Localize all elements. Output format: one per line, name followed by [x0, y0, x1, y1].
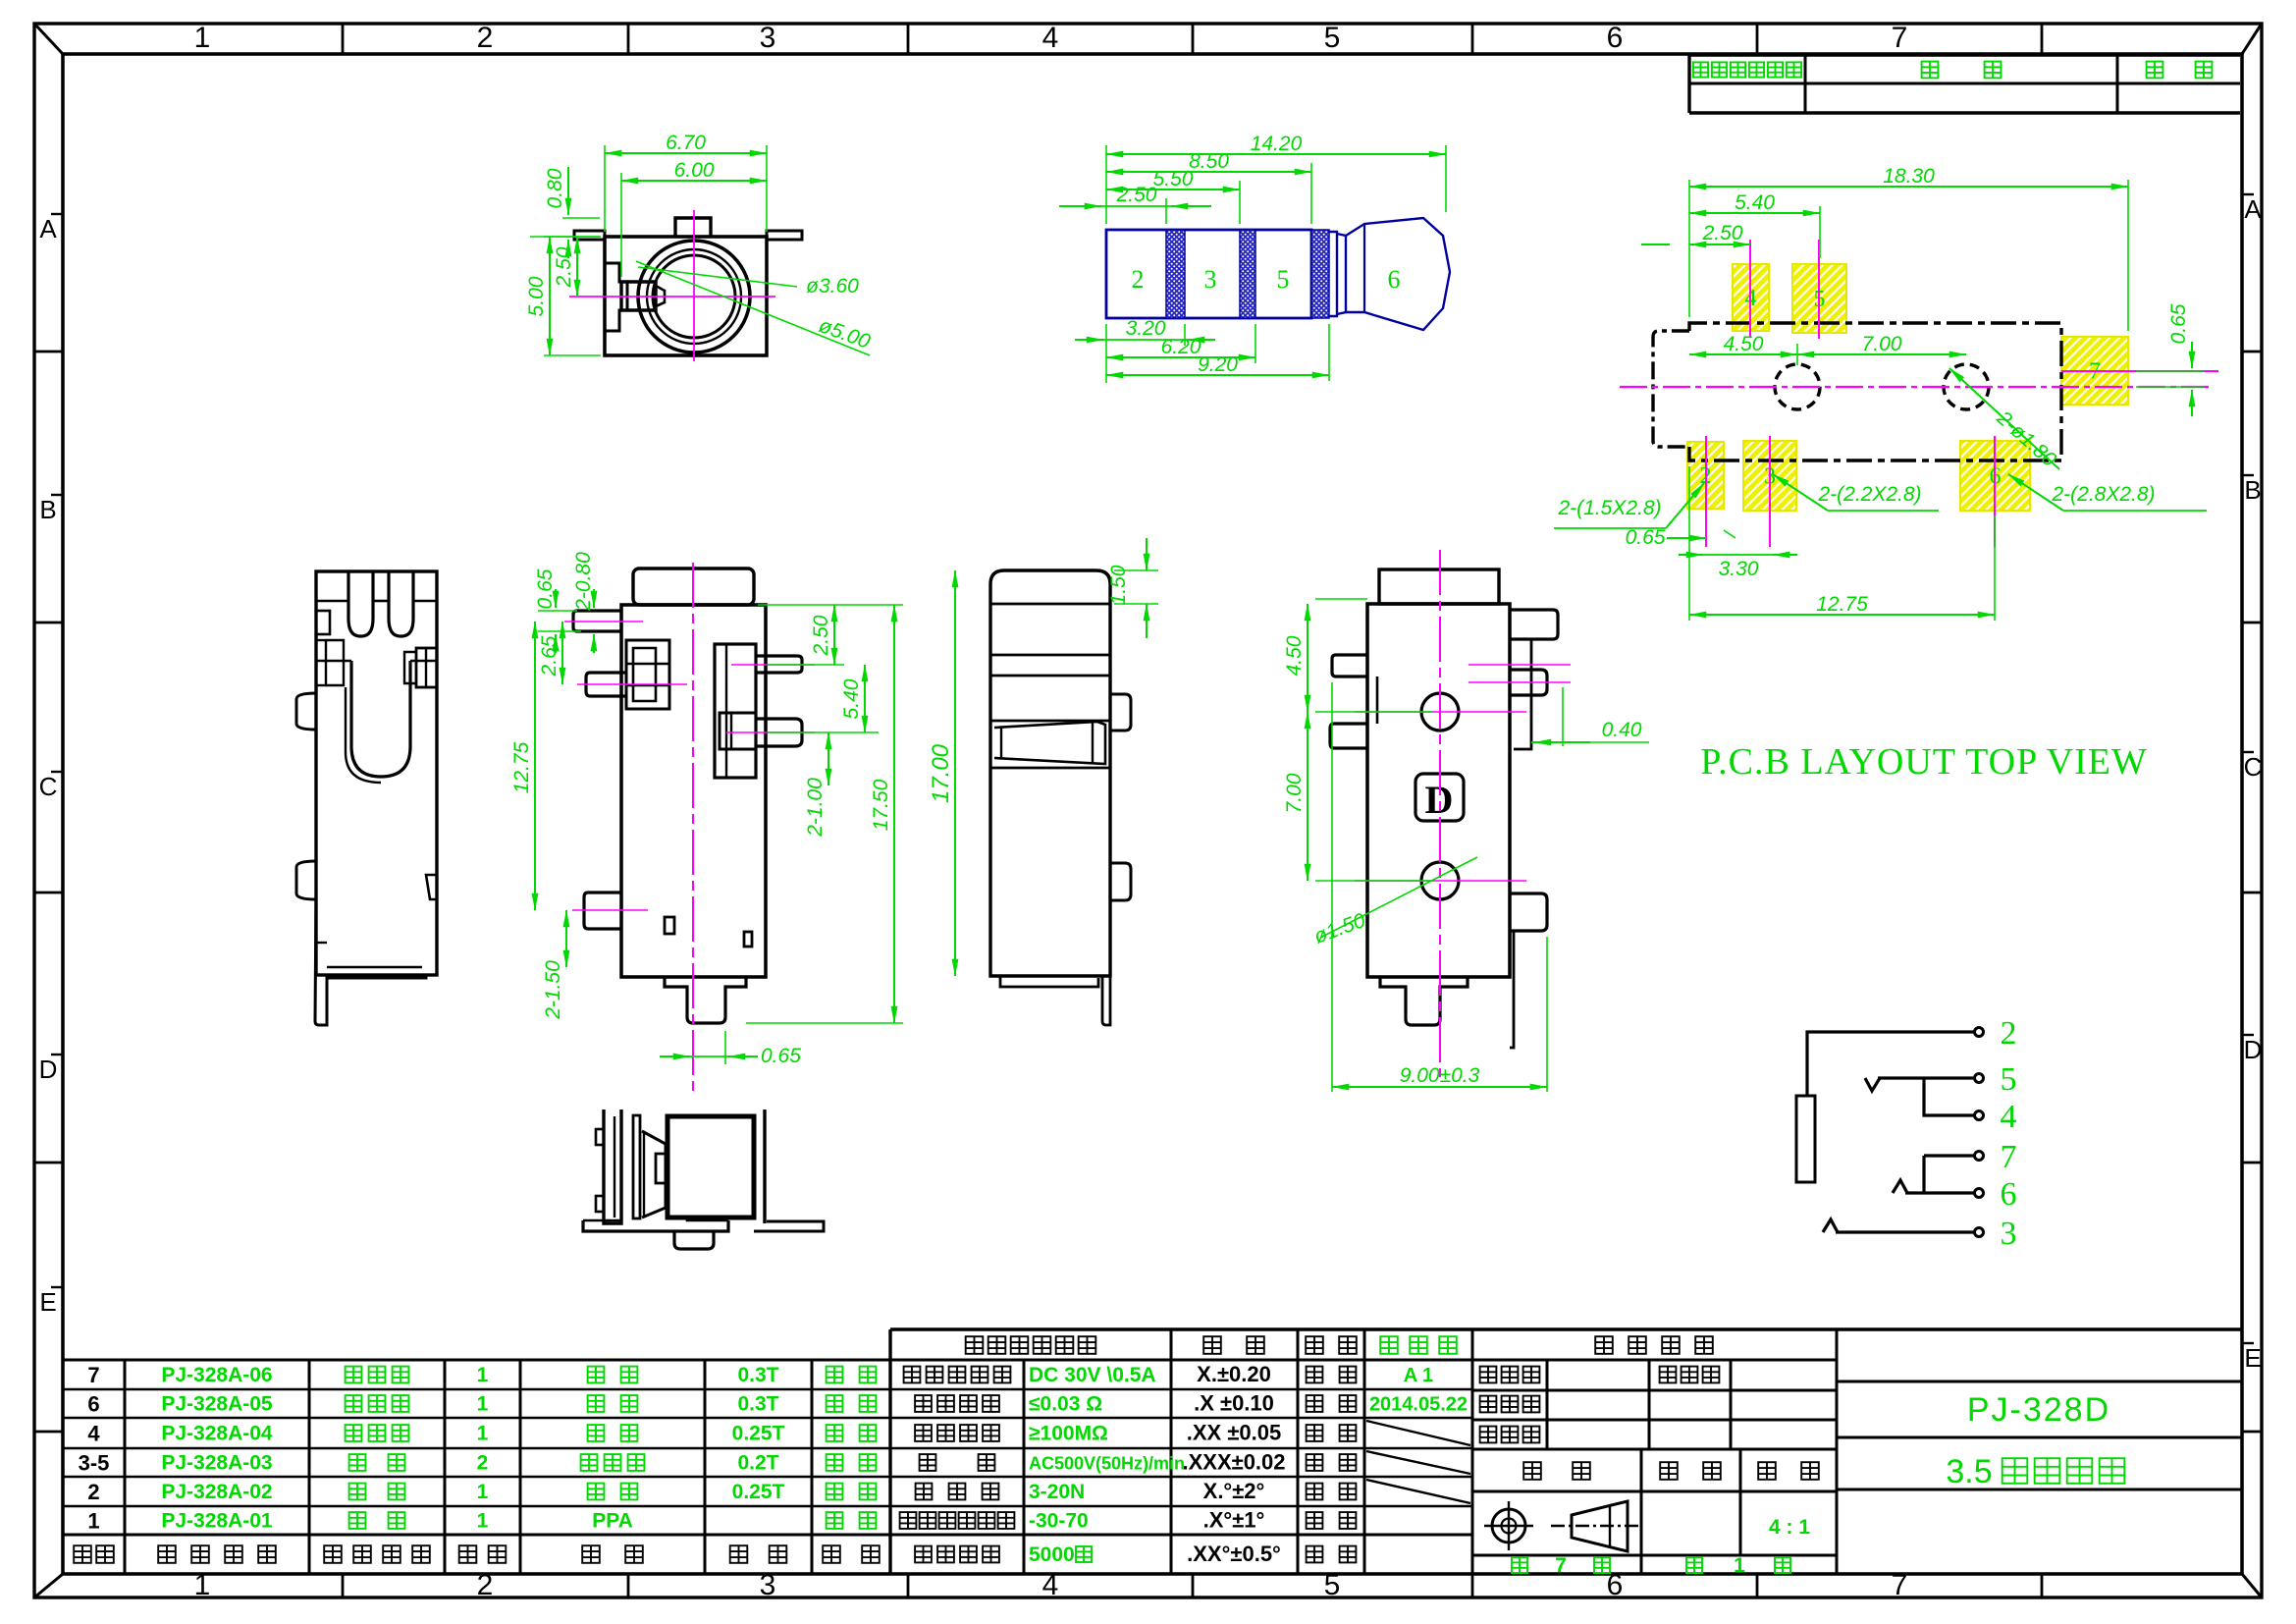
svg-text:2-1.00: 2-1.00 — [804, 778, 827, 838]
svg-text:0.65: 0.65 — [761, 1045, 801, 1067]
view: PCB layout — [1554, 165, 2218, 621]
svg-text:5.40: 5.40 — [1735, 191, 1775, 214]
svg-text:6: 6 — [87, 1392, 99, 1417]
svg-text:4: 4 — [87, 1422, 100, 1446]
svg-text:18.30: 18.30 — [1883, 165, 1935, 188]
svg-text:A: A — [39, 214, 57, 244]
svg-text:6.70: 6.70 — [666, 132, 706, 154]
svg-text:6: 6 — [2001, 1176, 2017, 1213]
svg-text:1: 1 — [477, 1481, 489, 1503]
parts list table — [63, 1360, 1837, 1574]
view: 3.5mm plug — [1059, 133, 1450, 383]
svg-text:7: 7 — [1892, 1569, 1908, 1601]
svg-text:7.00: 7.00 — [1283, 773, 1306, 813]
svg-text:PPA: PPA — [592, 1510, 633, 1533]
svg-text:C: C — [39, 772, 58, 801]
svg-text:4.50: 4.50 — [1283, 635, 1306, 676]
svg-text:PJ-328A-03: PJ-328A-03 — [161, 1452, 272, 1475]
svg-text:≤0.03 Ω: ≤0.03 Ω — [1029, 1393, 1102, 1416]
svg-text:3: 3 — [760, 1569, 776, 1601]
svg-text:2-(1.5X2.8): 2-(1.5X2.8) — [1557, 497, 1661, 519]
svg-text:0.3T: 0.3T — [737, 1364, 778, 1386]
svg-text:0.80: 0.80 — [544, 168, 566, 208]
wire to terminal 4 — [1924, 1078, 1975, 1115]
revision table top right — [1689, 55, 2240, 113]
view: front view — [510, 552, 903, 1092]
svg-text:4.50: 4.50 — [1724, 333, 1764, 355]
svg-text:5.00: 5.00 — [525, 276, 548, 316]
svg-text:C: C — [2244, 752, 2263, 782]
svg-text:0.65: 0.65 — [1626, 526, 1666, 549]
view: bottom view — [583, 1110, 824, 1249]
view: back view — [1283, 550, 1649, 1092]
svg-text:1: 1 — [194, 22, 211, 54]
svg-text:2.50: 2.50 — [1702, 222, 1743, 244]
switch arm and wire terminal 3 — [1823, 1219, 1975, 1232]
svg-text:B: B — [39, 495, 56, 524]
svg-text:B: B — [2244, 475, 2261, 505]
svg-text:3: 3 — [1204, 265, 1217, 294]
terminal 7 — [1975, 1139, 2017, 1175]
terminal 3 — [1975, 1216, 2017, 1252]
svg-text:≥100MΩ: ≥100MΩ — [1029, 1423, 1108, 1445]
svg-text:17.00: 17.00 — [928, 743, 954, 803]
svg-text:A: A — [2244, 194, 2262, 224]
svg-text:2014.05.22: 2014.05.22 — [1369, 1394, 1468, 1416]
switch arm and wire terminal 6 — [1893, 1180, 1975, 1193]
svg-text:5: 5 — [2001, 1061, 2017, 1098]
svg-text:2-1.50: 2-1.50 — [542, 960, 564, 1020]
wire to terminal 2 — [1807, 1032, 1975, 1096]
view: jack top view — [525, 132, 874, 361]
svg-text:9.20: 9.20 — [1198, 353, 1238, 376]
svg-text:6.20: 6.20 — [1161, 336, 1201, 358]
svg-text:2-(2.2X2.8): 2-(2.2X2.8) — [1817, 483, 1921, 506]
svg-text:4 : 1: 4 : 1 — [1769, 1516, 1810, 1539]
svg-text:5: 5 — [1324, 22, 1341, 54]
svg-text:PJ-328D: PJ-328D — [1967, 1391, 2110, 1429]
svg-text:A 1: A 1 — [1404, 1365, 1433, 1386]
svg-text:5: 5 — [1324, 1569, 1341, 1601]
svg-text:6: 6 — [1388, 265, 1401, 294]
svg-text:4: 4 — [1042, 1569, 1059, 1601]
view: side view right — [928, 538, 1158, 1025]
svg-text:0.65: 0.65 — [534, 568, 557, 609]
svg-text:4: 4 — [1042, 22, 1059, 54]
view: side view left — [296, 571, 437, 1025]
svg-text:5000: 5000 — [1029, 1543, 1075, 1566]
svg-text:1: 1 — [477, 1423, 489, 1445]
svg-text:2: 2 — [477, 1569, 494, 1601]
svg-text:2.50: 2.50 — [1116, 184, 1157, 206]
svg-text:1: 1 — [1734, 1554, 1745, 1577]
svg-text:D: D — [2244, 1035, 2263, 1064]
terminal 5 — [1975, 1061, 2017, 1098]
svg-text:.XX°±0.5°: .XX°±0.5° — [1187, 1542, 1281, 1566]
svg-text:2.65: 2.65 — [538, 635, 561, 677]
svg-text:7: 7 — [1555, 1554, 1567, 1577]
svg-text:6: 6 — [1607, 22, 1624, 54]
svg-text:2.50: 2.50 — [553, 246, 575, 288]
svg-text:0.40: 0.40 — [1602, 719, 1642, 741]
svg-text:5.40: 5.40 — [840, 678, 863, 719]
svg-text:.X°±1°: .X°±1° — [1203, 1508, 1265, 1533]
svg-text:PJ-328A-05: PJ-328A-05 — [161, 1393, 273, 1416]
svg-text:8.50: 8.50 — [1189, 150, 1229, 173]
svg-text:PJ-328A-02: PJ-328A-02 — [161, 1481, 272, 1503]
svg-text:0.2T: 0.2T — [737, 1452, 778, 1475]
svg-text:1: 1 — [87, 1509, 99, 1534]
svg-text:6.00: 6.00 — [674, 159, 715, 182]
svg-text:7: 7 — [2001, 1139, 2017, 1175]
svg-text:5: 5 — [1277, 265, 1290, 294]
svg-text:2: 2 — [1132, 265, 1145, 294]
svg-text:1: 1 — [477, 1364, 489, 1386]
svg-text:3-5: 3-5 — [79, 1451, 110, 1476]
svg-text:2: 2 — [477, 1452, 489, 1475]
svg-text:1: 1 — [477, 1510, 489, 1533]
svg-text:5.50: 5.50 — [1153, 168, 1194, 190]
svg-text:3: 3 — [2001, 1216, 2017, 1252]
svg-text:D: D — [39, 1055, 58, 1084]
svg-text:17.50: 17.50 — [870, 779, 892, 831]
svg-text:3.30: 3.30 — [1719, 558, 1759, 580]
svg-text:1.50: 1.50 — [1107, 565, 1130, 605]
svg-text:3: 3 — [760, 22, 776, 54]
svg-text:2-0.80: 2-0.80 — [572, 552, 595, 612]
svg-text:.XX ±0.05: .XX ±0.05 — [1187, 1421, 1281, 1445]
svg-text:E: E — [2244, 1343, 2261, 1373]
svg-text:14.20: 14.20 — [1251, 133, 1303, 155]
svg-text:-30-70: -30-70 — [1029, 1510, 1089, 1533]
svg-text:12.75: 12.75 — [1816, 593, 1868, 616]
svg-text:3-20N: 3-20N — [1029, 1481, 1085, 1503]
svg-text:0.25T: 0.25T — [732, 1481, 785, 1503]
svg-text:7: 7 — [1892, 22, 1908, 54]
svg-text:2: 2 — [477, 22, 494, 54]
svg-text:12.75: 12.75 — [510, 741, 533, 793]
svg-text:1: 1 — [194, 1569, 211, 1601]
svg-text:E: E — [39, 1287, 56, 1317]
svg-text:P.C.B LAYOUT TOP VIEW: P.C.B LAYOUT TOP VIEW — [1700, 741, 2148, 783]
terminal 6 — [1975, 1176, 2017, 1213]
svg-text:DC 30V \0.5A: DC 30V \0.5A — [1029, 1364, 1156, 1386]
svg-text:3.5: 3.5 — [1946, 1453, 1992, 1490]
wire to terminal 7 — [1924, 1156, 1975, 1193]
svg-text:.X ±0.10: .X ±0.10 — [1194, 1391, 1274, 1416]
sleeve contact bar — [1796, 1096, 1815, 1182]
svg-text:1: 1 — [477, 1393, 489, 1416]
terminal 2 — [1975, 1015, 2017, 1052]
svg-text:ø3.60: ø3.60 — [806, 275, 859, 298]
svg-text:4: 4 — [2001, 1099, 2017, 1135]
svg-text:PJ-328A-04: PJ-328A-04 — [161, 1423, 273, 1445]
svg-text:0.65: 0.65 — [2167, 303, 2190, 344]
svg-text:X.±0.20: X.±0.20 — [1197, 1362, 1271, 1386]
svg-text:0.25T: 0.25T — [732, 1423, 785, 1445]
terminal 4 — [1975, 1099, 2017, 1135]
svg-text:X.°±2°: X.°±2° — [1203, 1479, 1265, 1503]
svg-text:PJ-328A-06: PJ-328A-06 — [161, 1364, 272, 1386]
svg-text:3.20: 3.20 — [1126, 317, 1166, 340]
svg-text:PJ-328A-01: PJ-328A-01 — [161, 1510, 273, 1533]
svg-text:AC500V(50Hz)/min: AC500V(50Hz)/min — [1029, 1454, 1185, 1474]
svg-text:2.50: 2.50 — [810, 615, 832, 656]
svg-text:2-(2.8X2.8): 2-(2.8X2.8) — [2051, 483, 2155, 506]
svg-text:.XXX±0.02: .XXX±0.02 — [1182, 1450, 1285, 1475]
svg-text:7: 7 — [87, 1363, 99, 1387]
svg-text:2: 2 — [87, 1480, 99, 1504]
tech spec table and title block — [890, 1329, 2242, 1577]
svg-text:2: 2 — [2001, 1015, 2017, 1052]
svg-text:0.3T: 0.3T — [737, 1393, 778, 1416]
svg-text:9.00±0.3: 9.00±0.3 — [1400, 1064, 1480, 1087]
svg-text:7.00: 7.00 — [1862, 333, 1902, 355]
switch arm and wire terminal 5 — [1865, 1078, 1975, 1091]
